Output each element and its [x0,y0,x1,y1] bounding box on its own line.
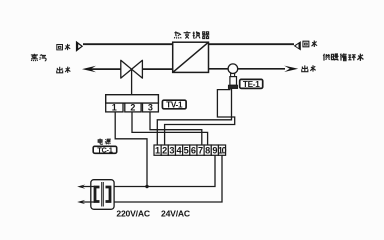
wire: strip terminal 9 to transformer secondary top [110,155,215,186]
svg-text:7: 7 [198,145,203,155]
terminal strip numbers [155,145,227,155]
svg-text:1: 1 [112,103,117,113]
label return water left [57,45,63,50]
label steam [31,54,38,61]
wire: valve cell2 to strip terminal 8 [132,112,208,145]
wire: sensor center lead to strip terminal 1 [157,88,231,145]
transformer outline [91,180,114,210]
arrow: right out-water outlet [284,66,298,72]
pipe: top return-water line left segment [83,43,173,45]
label return water right [303,41,309,47]
svg-text:24V/AC: 24V/AC [161,208,190,218]
sensor body [230,77,237,86]
pipe: top return-water line right segment [209,43,295,45]
label out water right [302,65,308,71]
wire: sensor side lead to strip terminal 2 [165,90,235,145]
svg-text:TE-1: TE-1 [243,80,260,89]
sensor flange [229,85,238,88]
transformer core lines [102,182,104,207]
svg-text:2: 2 [130,103,135,113]
svg-text:4: 4 [177,145,183,155]
arrow: left out-water outlet [82,66,96,73]
svg-text:220V/AC: 220V/AC [116,208,149,218]
svg-text:3: 3 [148,103,153,113]
valve actuator box top band [106,95,159,103]
sensor neck [231,74,235,77]
pipe: bottom out-water line right segment [209,68,286,70]
valve TV-1 body [121,60,143,78]
transformer primary lead top with arrow [83,187,96,203]
svg-text:9: 9 [212,145,217,155]
wire: valve cell1 to transformer junction [115,112,147,187]
valve stem [131,69,133,95]
svg-text:TV-1: TV-1 [166,100,183,109]
label out water left [57,67,63,73]
svg-text:2: 2 [162,145,167,155]
pipe: bottom out-water line left of valve [90,68,121,70]
junction dot [145,185,148,188]
wire: strip terminal 10 to transformer secondary bottom [110,155,222,202]
transformer primary lead bottom with arrow [77,200,85,204]
svg-text:TC-1: TC-1 [97,146,112,155]
transformer right winding [106,187,111,202]
svg-text:8: 8 [205,145,210,155]
label power [98,138,102,144]
terminal strip TC-1 cells [154,145,226,155]
svg-text:5: 5 [184,145,189,155]
actuator terminal cell 3 [143,103,159,112]
svg-text:1: 1 [155,145,160,155]
label box TE-1 [240,79,263,88]
svg-text:6: 6 [191,145,196,155]
label box TV-1 [162,100,186,109]
label box TC-1 [93,146,117,153]
arrow: right return-water inlet [294,41,301,50]
transformer left winding [95,187,100,202]
pipe: bottom out-water line valve to exchanger [142,68,172,70]
arrow: left return-water inlet [76,41,83,52]
heat exchanger box [173,42,209,72]
actuator terminal cell 1 [106,103,123,112]
sensor TE-1 circle [228,64,238,74]
wire: valve cell3 to strip terminal 7 [150,112,202,145]
actuator terminal cell 2 [125,103,141,112]
label heating circulation water [323,54,330,61]
svg-text:3: 3 [169,145,174,155]
label heat exchanger [174,31,181,38]
